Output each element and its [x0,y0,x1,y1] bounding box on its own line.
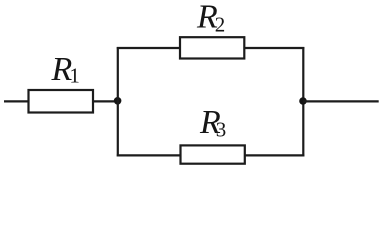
svg-text:3: 3 [216,117,227,141]
resistor R3 [181,145,245,163]
wire: left input lead [4,100,28,102]
wire: bottom branch, R3 to node B [244,154,304,156]
wire: left vertical bus [117,47,119,157]
svg-text:2: 2 [215,13,226,37]
node B junction dot [299,97,307,105]
wire: top branch, node A to R2 [117,47,181,49]
wire: bottom branch, node A to R3 [117,154,182,156]
wire: R1 to node A [93,100,115,102]
resistor R1 [29,90,94,113]
node A junction dot [114,97,122,105]
wire: right output lead [303,100,379,102]
wire: right vertical bus [302,47,304,157]
wire: top branch, R2 to node B [244,47,305,49]
resistor R2 [180,37,244,58]
svg-text:1: 1 [69,64,80,88]
